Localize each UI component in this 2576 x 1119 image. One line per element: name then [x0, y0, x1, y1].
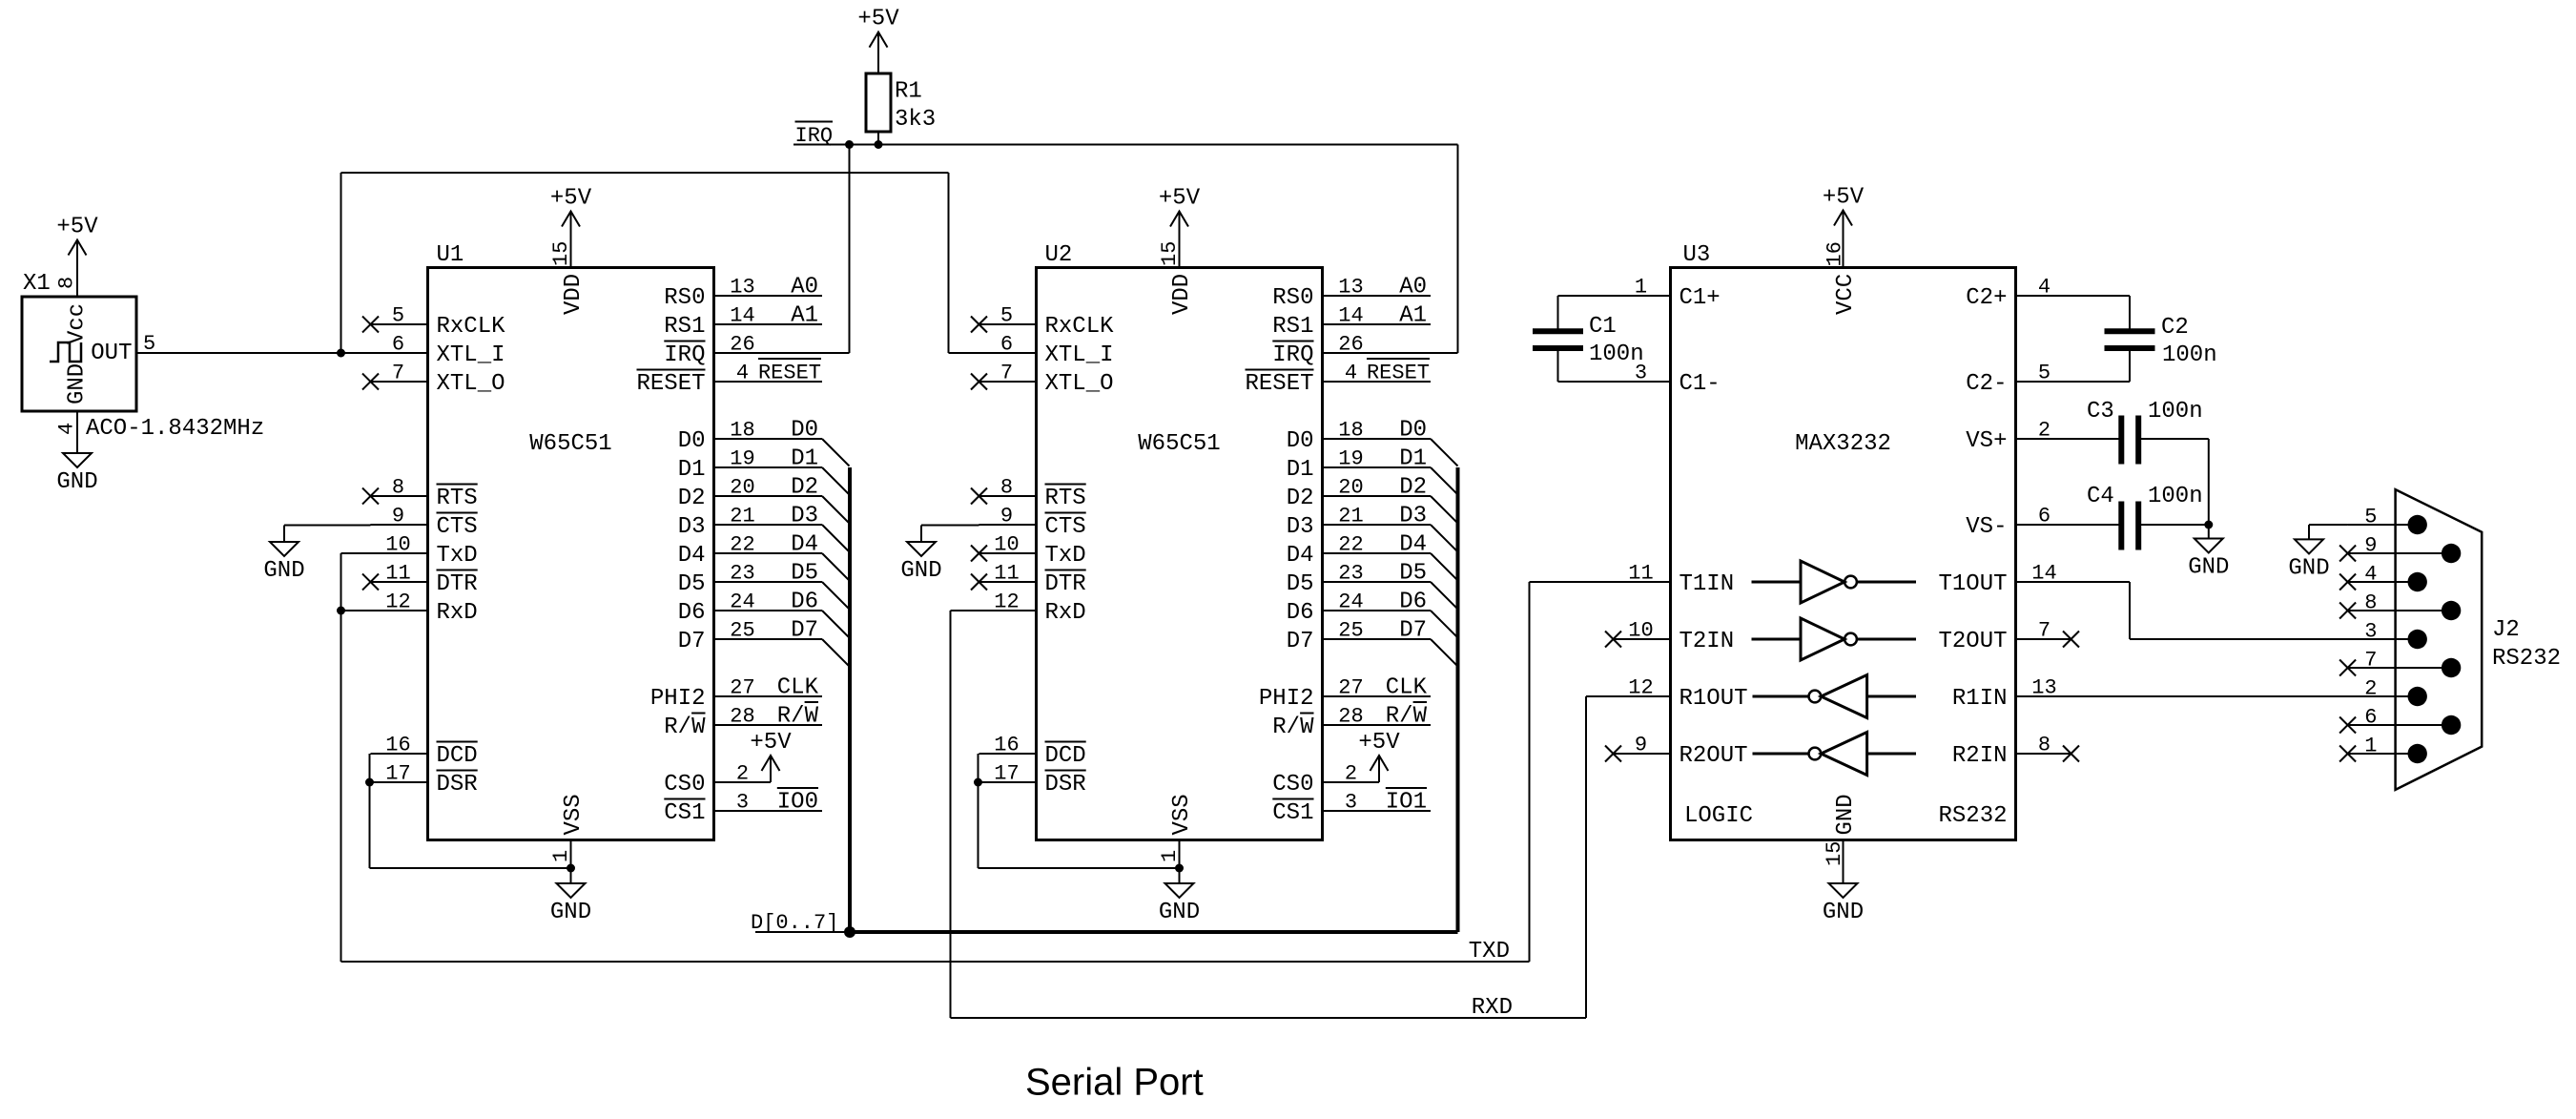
- U1 pin 18 D0 / bus entry: [678, 418, 850, 466]
- U1 pin 8 RTS: [362, 476, 478, 512]
- svg-text:26: 26: [1338, 333, 1363, 357]
- svg-text:2: 2: [2038, 419, 2050, 443]
- svg-text:D1: D1: [791, 446, 818, 472]
- svg-text:J2: J2: [2492, 617, 2520, 643]
- wire RXD rail: [951, 696, 1587, 1018]
- bus junction: [844, 926, 855, 938]
- J2 pin 9: [2339, 534, 2461, 564]
- ground at J2 pin 5: [2288, 525, 2329, 581]
- net label TXD: [1469, 939, 1510, 964]
- U1 pin 1 VSS: [549, 794, 587, 883]
- svg-text:1: 1: [1635, 276, 1647, 300]
- U1 pin 2 CS0: [664, 756, 771, 798]
- svg-text:RS232: RS232: [1938, 803, 2007, 829]
- U2 pin 8 RTS: [971, 476, 1086, 512]
- svg-text:RS1: RS1: [664, 314, 705, 340]
- U2 pin 21 D3 / bus entry: [1287, 504, 1458, 552]
- svg-text:D1: D1: [678, 457, 706, 483]
- U3 pin 15 GND: [1823, 794, 1859, 883]
- svg-text:GND: GND: [1823, 900, 1864, 925]
- svg-text:OUT: OUT: [91, 341, 132, 366]
- ground at U1 CTS: [263, 526, 304, 585]
- U1 pin 24 D6 / bus entry: [678, 590, 850, 638]
- svg-text:22: 22: [730, 533, 754, 557]
- svg-text:R/W: R/W: [777, 704, 819, 730]
- svg-text:RXD: RXD: [1472, 995, 1513, 1021]
- U3 pin 12 R1OUT: [1586, 676, 1748, 713]
- svg-text:19: 19: [1338, 447, 1363, 471]
- U2 pin 27 PHI2 / net CLK: [1259, 675, 1431, 713]
- wire clock riser U1: [340, 173, 342, 353]
- svg-text:GND: GND: [263, 558, 304, 584]
- svg-text:T2IN: T2IN: [1680, 629, 1735, 654]
- U2 pin 23 D5 / bus entry: [1287, 561, 1458, 610]
- oscillator X1 body: [22, 271, 264, 442]
- svg-text:R1IN: R1IN: [1952, 686, 2008, 712]
- svg-text:100n: 100n: [1589, 342, 1644, 367]
- bus D[0..7] horizontal: [850, 930, 1458, 934]
- svg-text:+5V: +5V: [56, 215, 98, 240]
- U1 pin 12 RxD: [371, 591, 478, 627]
- svg-text:22: 22: [1338, 533, 1363, 557]
- wire C4 to ground junction: [2141, 524, 2209, 526]
- U2 pin 5 RxCLK: [971, 304, 1114, 341]
- svg-text:23: 23: [1338, 562, 1363, 586]
- svg-text:6: 6: [2364, 706, 2377, 730]
- svg-text:17: 17: [994, 762, 1019, 786]
- U3 R1 receiver symbol: [1753, 675, 1917, 718]
- U2 pin 17 DSR: [979, 762, 1086, 798]
- svg-text:3: 3: [736, 791, 749, 815]
- U1 pin 23 D5 / bus entry: [678, 561, 850, 610]
- svg-text:CS1: CS1: [664, 800, 705, 826]
- svg-text:C4: C4: [2087, 484, 2114, 509]
- J2 pin 2: [2348, 677, 2427, 707]
- svg-text:R1OUT: R1OUT: [1680, 686, 1748, 712]
- U3 pin 9 R2OUT: [1605, 734, 1748, 770]
- svg-text:GND: GND: [1833, 794, 1859, 835]
- wire J2 pin 5 to ground: [2309, 524, 2348, 526]
- U2 pin 16 DCD: [979, 734, 1086, 770]
- U2 pin 3 CS1 / net IO1: [1272, 788, 1431, 826]
- svg-text:14: 14: [730, 304, 754, 328]
- U3 T1 driver symbol: [1752, 561, 1917, 603]
- U2 pin 4 RESET: [1245, 359, 1431, 397]
- wire U2 CTS to ground: [921, 525, 979, 527]
- svg-text:LOGIC: LOGIC: [1684, 803, 1753, 829]
- svg-text:XTL_I: XTL_I: [1045, 342, 1114, 368]
- svg-text:D3: D3: [1287, 514, 1314, 540]
- svg-text:RxD: RxD: [1045, 600, 1086, 626]
- svg-text:D6: D6: [1287, 600, 1314, 626]
- svg-text:1: 1: [549, 850, 573, 862]
- svg-text:RxD: RxD: [437, 600, 478, 626]
- svg-text:D7: D7: [1287, 629, 1314, 654]
- svg-text:A1: A1: [1399, 303, 1427, 329]
- svg-text:D0: D0: [1287, 428, 1314, 454]
- svg-text:17: 17: [385, 762, 410, 786]
- svg-text:RESET: RESET: [636, 371, 705, 397]
- svg-text:D6: D6: [1399, 590, 1427, 615]
- svg-text:CLK: CLK: [1386, 675, 1428, 701]
- U2 pin 24 D6 / bus entry: [1287, 590, 1458, 638]
- svg-text:9: 9: [1635, 734, 1647, 757]
- capacitor C3: [2087, 399, 2203, 465]
- U1 pin 19 D1 / bus entry: [678, 446, 850, 495]
- svg-text:IO0: IO0: [777, 790, 818, 816]
- U1 pin 5 RxCLK: [362, 304, 505, 341]
- svg-text:DSR: DSR: [437, 772, 478, 798]
- svg-text:C1+: C1+: [1680, 285, 1721, 311]
- svg-text:CS0: CS0: [664, 772, 705, 798]
- svg-text:GND: GND: [56, 469, 97, 495]
- svg-text:PHI2: PHI2: [1259, 686, 1314, 712]
- wire IRQ rail: [793, 144, 1458, 146]
- svg-text:C2-: C2-: [1966, 371, 2007, 397]
- svg-text:D2: D2: [791, 475, 818, 501]
- svg-text:8: 8: [2364, 591, 2377, 615]
- svg-text:C2+: C2+: [1966, 285, 2007, 311]
- svg-text:C1: C1: [1589, 314, 1617, 340]
- svg-text:8: 8: [55, 277, 79, 289]
- U1 pin 16 DCD: [371, 734, 478, 770]
- svg-text:100n: 100n: [2148, 399, 2203, 425]
- U1 pin 11 DTR: [362, 562, 478, 598]
- U3 pin 4 C2+: [1966, 276, 2130, 312]
- X1 pin 8 number: [55, 277, 79, 289]
- svg-text:11: 11: [385, 562, 410, 586]
- junction IRQ at U1 riser: [845, 140, 854, 149]
- svg-text:D6: D6: [791, 590, 818, 615]
- svg-text:10: 10: [1628, 619, 1653, 643]
- U3 T2 driver symbol: [1752, 618, 1917, 660]
- svg-text:+5V: +5V: [857, 7, 899, 32]
- U2 pin 1 VSS: [1158, 794, 1195, 883]
- svg-text:D2: D2: [678, 486, 706, 511]
- U1 pin 9 CTS: [371, 505, 478, 541]
- svg-text:U1: U1: [437, 242, 464, 268]
- U1 pin 20 D2 / bus entry: [678, 475, 850, 524]
- U3 pin 14 T1OUT: [1938, 562, 2417, 640]
- J2 pin 8: [2339, 591, 2461, 621]
- resistor R1: [866, 73, 936, 145]
- svg-text:15: 15: [549, 241, 573, 266]
- svg-text:24: 24: [730, 591, 754, 614]
- svg-text:+5V: +5V: [1159, 186, 1201, 212]
- svg-text:RS0: RS0: [1272, 285, 1313, 311]
- junction VS ground node: [2204, 521, 2213, 529]
- J2 pin 5: [2348, 506, 2427, 535]
- U3 pin 13 R1IN: [1952, 676, 2418, 713]
- U2 pin 25 D7 / bus entry: [1287, 618, 1458, 667]
- wire U1 TxD drop: [341, 553, 428, 962]
- wire X1 OUT to U1 XTL_I: [136, 352, 428, 354]
- J2 pin 1: [2339, 735, 2427, 764]
- U1 pin 28 R/W: [664, 702, 822, 740]
- wire clock drop to U2 XTL_I: [949, 173, 979, 353]
- wire U1 CTS to ground: [284, 525, 371, 527]
- svg-text:D0: D0: [678, 428, 706, 454]
- svg-text:9: 9: [1000, 505, 1013, 528]
- X1 pin name Vcc: [65, 303, 91, 344]
- svg-text:T1OUT: T1OUT: [1938, 571, 2007, 597]
- U2 +5V at CS0: [1358, 730, 1400, 771]
- svg-text:1: 1: [1158, 850, 1182, 862]
- X1 +5V power symbol: [56, 215, 98, 298]
- svg-text:CS0: CS0: [1272, 772, 1313, 798]
- svg-text:+5V: +5V: [1358, 730, 1400, 756]
- U2 pin 18 D0 / bus entry: [1287, 418, 1458, 466]
- svg-text:8: 8: [392, 476, 404, 500]
- svg-text:3: 3: [2364, 620, 2377, 644]
- svg-text:VSS: VSS: [561, 794, 587, 835]
- svg-text:D2: D2: [1287, 486, 1314, 511]
- U2 pin 9 CTS: [979, 505, 1086, 541]
- svg-text:+5V: +5V: [750, 730, 792, 756]
- svg-text:MAX3232: MAX3232: [1795, 431, 1891, 457]
- svg-text:X1: X1: [23, 271, 51, 297]
- svg-text:U3: U3: [1683, 242, 1711, 268]
- U2 pin 13 RS0 / net A0: [1272, 275, 1431, 312]
- svg-text:+5V: +5V: [1823, 185, 1865, 211]
- U3 pin 5 C2-: [1966, 362, 2130, 398]
- svg-text:18: 18: [1338, 419, 1363, 443]
- svg-text:6: 6: [392, 333, 404, 357]
- X1 pin name GND: [65, 363, 91, 404]
- svg-text:R1: R1: [895, 79, 922, 105]
- J2 pin 7: [2339, 649, 2461, 678]
- capacitor C1: [1533, 296, 1644, 382]
- svg-text:13: 13: [2031, 676, 2056, 700]
- U1 pin 27 PHI2 / net CLK: [650, 675, 822, 713]
- svg-text:A0: A0: [1399, 275, 1427, 300]
- svg-text:DCD: DCD: [437, 743, 478, 769]
- U2 pin 26 IRQ: [1272, 333, 1457, 369]
- svg-text:2: 2: [736, 762, 749, 786]
- svg-text:3: 3: [1345, 791, 1357, 815]
- U1 pin 26 IRQ: [664, 333, 849, 369]
- svg-text:4: 4: [55, 423, 79, 435]
- wire clock top run: [341, 172, 949, 174]
- bus riser at U1: [848, 467, 852, 932]
- IC U1 body: [428, 242, 714, 840]
- svg-text:D0: D0: [791, 418, 818, 444]
- svg-text:D5: D5: [1399, 561, 1427, 587]
- svg-text:6: 6: [1000, 333, 1013, 357]
- svg-text:CLK: CLK: [777, 675, 819, 701]
- IC U3 body: [1671, 242, 2016, 840]
- title Serial Port: [1025, 1062, 1204, 1104]
- svg-text:19: 19: [730, 447, 754, 471]
- U2 pin 6 XTL_I: [979, 333, 1114, 369]
- capacitor C4: [2087, 484, 2203, 550]
- svg-text:GND: GND: [65, 363, 91, 404]
- svg-text:9: 9: [2364, 534, 2377, 558]
- svg-text:R/W: R/W: [1272, 715, 1314, 740]
- svg-text:RS0: RS0: [664, 285, 705, 311]
- svg-text:DTR: DTR: [437, 571, 478, 597]
- svg-text:RxCLK: RxCLK: [437, 314, 506, 340]
- svg-text:5: 5: [1000, 304, 1013, 328]
- U1 pin 22 D4 / bus entry: [678, 532, 850, 581]
- svg-text:21: 21: [730, 505, 754, 528]
- svg-text:R/W: R/W: [664, 715, 706, 740]
- svg-text:1: 1: [2364, 735, 2377, 758]
- svg-text:R2OUT: R2OUT: [1680, 743, 1748, 769]
- U3 pin 16 VCC: [1824, 241, 1859, 315]
- svg-text:28: 28: [730, 705, 754, 729]
- U2 pin 10 TxD: [971, 533, 1086, 570]
- X1 pin 5 number: [143, 332, 155, 356]
- svg-text:RESET: RESET: [1245, 371, 1313, 397]
- svg-text:XTL_I: XTL_I: [437, 342, 505, 368]
- svg-text:C1-: C1-: [1680, 371, 1721, 397]
- svg-text:ACO-1.8432MHz: ACO-1.8432MHz: [86, 416, 264, 442]
- svg-text:25: 25: [1338, 619, 1363, 643]
- svg-text:VS+: VS+: [1966, 428, 2007, 454]
- svg-text:C3: C3: [2087, 399, 2114, 425]
- svg-text:D6: D6: [678, 600, 706, 626]
- U3 ground at pin 15: [1823, 883, 1864, 925]
- svg-text:18: 18: [730, 419, 754, 443]
- svg-text:CTS: CTS: [437, 514, 478, 540]
- junction at X1 clock node: [337, 349, 345, 358]
- junction U2 DSR: [974, 778, 982, 787]
- U2 pin 2 CS0: [1272, 756, 1379, 798]
- svg-text:PHI2: PHI2: [650, 686, 706, 712]
- U2 pin 22 D4 / bus entry: [1287, 532, 1458, 581]
- svg-text:13: 13: [1338, 276, 1363, 300]
- net label IRQ: [795, 122, 834, 149]
- wire U1 DCD drop: [370, 754, 571, 868]
- svg-text:T2OUT: T2OUT: [1938, 629, 2007, 654]
- U1 +5V at VDD: [550, 186, 592, 268]
- X1 squarewave symbol: [50, 342, 81, 362]
- svg-text:VSS: VSS: [1169, 794, 1195, 835]
- svg-text:7: 7: [1000, 362, 1013, 385]
- svg-text:RS232: RS232: [2492, 646, 2561, 672]
- svg-text:T1IN: T1IN: [1680, 571, 1735, 597]
- svg-text:GND: GND: [2188, 555, 2229, 581]
- U3 R2 receiver symbol: [1753, 733, 1917, 776]
- svg-text:RTS: RTS: [1045, 486, 1086, 511]
- svg-text:16: 16: [994, 734, 1019, 757]
- U3 pin 7 T2OUT: [1938, 619, 2079, 655]
- svg-text:CTS: CTS: [1045, 514, 1086, 540]
- U1 pin 15 VDD: [549, 241, 587, 315]
- svg-text:20: 20: [1338, 476, 1363, 500]
- wire TXD rail: [341, 582, 1530, 962]
- U3 pin 10 T2IN: [1605, 619, 1734, 655]
- svg-text:14: 14: [1338, 304, 1363, 328]
- J2 pin 6: [2339, 706, 2461, 736]
- svg-text:7: 7: [392, 362, 404, 385]
- U2 pin 12 RxD: [979, 591, 1086, 627]
- svg-text:D4: D4: [1399, 532, 1427, 558]
- svg-text:GND: GND: [550, 900, 591, 925]
- svg-text:D7: D7: [791, 618, 818, 644]
- svg-text:R/W: R/W: [1386, 704, 1428, 730]
- svg-text:5: 5: [2364, 506, 2377, 529]
- svg-text:DCD: DCD: [1045, 743, 1086, 769]
- wire IRQ drop to U1: [849, 145, 851, 354]
- svg-text:D7: D7: [1399, 618, 1427, 644]
- svg-text:IRQ: IRQ: [1272, 342, 1313, 368]
- U3 pin 3 C1-: [1558, 362, 1721, 398]
- svg-text:DSR: DSR: [1045, 772, 1086, 798]
- svg-text:7: 7: [2364, 649, 2377, 673]
- svg-text:GND: GND: [2288, 555, 2329, 581]
- U2 ground at VSS: [1159, 864, 1200, 926]
- svg-text:D3: D3: [1399, 504, 1427, 529]
- svg-text:11: 11: [994, 562, 1019, 586]
- svg-text:TxD: TxD: [437, 543, 478, 569]
- U1 pin 6 XTL_I: [371, 333, 505, 369]
- bus label underline wire: [755, 931, 850, 933]
- svg-text:U2: U2: [1045, 242, 1073, 268]
- U3 pin 2 VS+: [1966, 419, 2118, 455]
- J2 pin 3: [2348, 620, 2427, 650]
- junction U1 DSR: [365, 778, 374, 787]
- svg-text:XTL_O: XTL_O: [437, 371, 505, 397]
- svg-text:D4: D4: [678, 543, 706, 569]
- wire U2 RxD drop: [951, 611, 1037, 1018]
- svg-text:XTL_O: XTL_O: [1045, 371, 1114, 397]
- svg-text:D5: D5: [1287, 571, 1314, 597]
- U1 pin 25 D7 / bus entry: [678, 618, 850, 667]
- U3 pin 11 T1IN: [1530, 562, 1735, 598]
- svg-text:14: 14: [2031, 562, 2056, 586]
- X1 ground: [56, 411, 97, 495]
- U1 pin 21 D3 / bus entry: [678, 504, 850, 552]
- svg-text:D3: D3: [791, 504, 818, 529]
- U2 pin 11 DTR: [971, 562, 1086, 598]
- svg-text:A0: A0: [791, 275, 818, 300]
- svg-text:R2IN: R2IN: [1952, 743, 2008, 769]
- svg-text:TxD: TxD: [1045, 543, 1086, 569]
- wire U1 RxD link: [341, 610, 428, 611]
- bus label D[0..7]: [751, 911, 838, 935]
- svg-text:GND: GND: [1159, 900, 1200, 925]
- svg-text:D5: D5: [678, 571, 706, 597]
- svg-text:8: 8: [1000, 476, 1013, 500]
- svg-text:D2: D2: [1399, 475, 1427, 501]
- svg-text:15: 15: [1158, 241, 1182, 266]
- U2 pin 14 RS1 / net A1: [1272, 303, 1431, 341]
- U1 ground at VSS: [550, 864, 591, 926]
- svg-text:16: 16: [385, 734, 410, 757]
- U2 pin 20 D2 / bus entry: [1287, 475, 1458, 524]
- connector J2 body: [2396, 489, 2561, 790]
- svg-text:20: 20: [730, 476, 754, 500]
- svg-text:DTR: DTR: [1045, 571, 1086, 597]
- U3 pin 1 C1+: [1558, 276, 1721, 312]
- svg-text:D1: D1: [1287, 457, 1314, 483]
- svg-text:4: 4: [2038, 276, 2050, 300]
- svg-text:24: 24: [1338, 591, 1363, 614]
- svg-text:GND: GND: [900, 558, 941, 584]
- ground at C3/C4: [2188, 525, 2229, 581]
- svg-text:6: 6: [2038, 505, 2050, 528]
- J2 pin 4: [2339, 563, 2427, 592]
- svg-text:IO1: IO1: [1386, 790, 1427, 816]
- svg-text:28: 28: [1338, 705, 1363, 729]
- svg-text:23: 23: [730, 562, 754, 586]
- svg-text:D7: D7: [678, 629, 706, 654]
- U1 pin 17 DSR: [371, 762, 478, 798]
- IC U2 body: [1037, 242, 1323, 840]
- svg-text:21: 21: [1338, 505, 1363, 528]
